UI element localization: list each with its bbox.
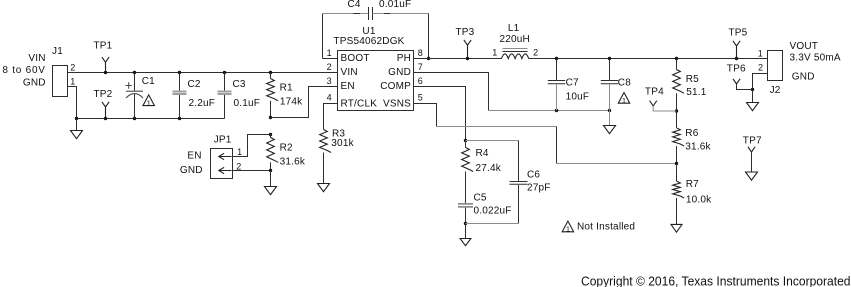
IC U1 TPS54062DGK body [338, 51, 414, 111]
wire VIN rail [68, 71, 338, 74]
label R7 [686, 179, 699, 190]
value L1 220uH [500, 34, 530, 45]
connector J1 [53, 66, 68, 97]
label C5 [474, 193, 487, 204]
svg-text:R6: R6 [685, 128, 698, 139]
svg-text:Not Installed: Not Installed [577, 221, 635, 232]
ground at TP7 [746, 172, 758, 180]
resistor R7 [673, 164, 684, 225]
svg-text:COMP: COMP [380, 81, 411, 92]
label JP1 [214, 134, 232, 145]
U1 pin name EN [341, 81, 355, 92]
svg-text:TP4: TP4 [645, 87, 664, 98]
svg-text:1: 1 [70, 76, 75, 86]
U1 pin 2 number [327, 62, 332, 72]
J2 pin 2 number [758, 62, 763, 72]
label C3 [233, 79, 246, 90]
resistor R4 [462, 141, 473, 204]
svg-text:C3: C3 [233, 79, 246, 90]
svg-text:174k: 174k [280, 97, 303, 108]
label C6 [527, 169, 540, 180]
svg-text:10.0k: 10.0k [686, 195, 712, 206]
svg-text:4: 4 [327, 93, 332, 103]
U1 pin 5 number [418, 93, 423, 103]
svg-text:TP5: TP5 [729, 28, 748, 39]
svg-text:BOOT: BOOT [341, 53, 370, 64]
label R3 [332, 129, 345, 140]
svg-text:C2: C2 [188, 79, 201, 90]
wire EN pin to divider [271, 87, 338, 118]
U1 pin name COMP [380, 81, 411, 92]
test point TP6 [733, 79, 753, 90]
svg-text:R5: R5 [686, 74, 699, 85]
label TPS54062DGK [333, 36, 404, 47]
svg-text:C5: C5 [474, 193, 487, 204]
svg-text:1: 1 [327, 48, 332, 58]
svg-text:8 to 60V: 8 to 60V [2, 65, 45, 76]
capacitor C3 [218, 73, 232, 119]
svg-text:27pF: 27pF [527, 183, 551, 194]
label L1 [508, 23, 520, 34]
label TP3 [456, 27, 475, 38]
capacitor C7 [548, 59, 565, 111]
wire GND rail [75, 117, 225, 120]
value R6 31.6k [685, 141, 711, 152]
svg-text:C6: C6 [527, 169, 540, 180]
svg-text:JP1: JP1 [214, 134, 232, 145]
svg-text:J2: J2 [770, 85, 781, 96]
label TP1 [94, 41, 113, 52]
svg-text:1: 1 [237, 147, 242, 157]
wire BOOT to C4 [323, 14, 369, 59]
U1 pin 8 number [418, 48, 423, 58]
value R4 27.4k [476, 163, 502, 174]
connector J2 [768, 51, 783, 81]
JP1 pin 2 number [236, 162, 241, 172]
label TP5 [729, 28, 748, 39]
svg-text:J1: J1 [52, 46, 63, 57]
svg-text:6: 6 [418, 76, 423, 86]
label C1 [142, 76, 155, 87]
resistor R3 [320, 130, 331, 184]
L1 pin 2 number [533, 48, 538, 58]
value C6 27pF [527, 183, 551, 194]
wire RT/CLK to R3 [324, 104, 338, 130]
node TP4 junction [675, 109, 678, 112]
svg-text:51.1: 51.1 [686, 87, 707, 98]
node R4 top junction [464, 139, 467, 142]
wire JP1 pin2 to ground node [233, 170, 271, 172]
svg-text:VSNS: VSNS [383, 98, 411, 109]
label C4 [348, 0, 361, 10]
node PH junction [427, 57, 430, 60]
label GND (output) [792, 71, 815, 82]
test point TP1 [102, 57, 109, 72]
svg-text:8: 8 [418, 48, 423, 58]
test point TP2 [102, 102, 109, 119]
svg-text:EN: EN [187, 151, 201, 162]
value R1 174k [280, 97, 303, 108]
L1 pin 1 number [492, 48, 497, 58]
JP1 pin1 arrow [219, 153, 232, 159]
wire JP1 pin1 to EN node [233, 135, 271, 157]
svg-text:EN: EN [341, 81, 355, 92]
capacitor C4 [369, 7, 373, 20]
svg-text:10uF: 10uF [566, 92, 590, 103]
U1 pin 4 number [327, 93, 332, 103]
svg-text:RT/CLK: RT/CLK [341, 98, 378, 109]
svg-text:C1: C1 [142, 76, 155, 87]
JP1 pin 1 number [237, 147, 242, 157]
U1 pin 3 number [327, 76, 332, 86]
svg-text:TP2: TP2 [94, 89, 113, 100]
U1 pin name RT/CLK [341, 98, 378, 109]
svg-text:0.022uF: 0.022uF [474, 205, 512, 216]
svg-text:0.01uF: 0.01uF [379, 0, 411, 10]
node VSNS junction [675, 162, 678, 165]
wire VSNS feedback route [414, 104, 677, 164]
value C2 2.2uF [189, 98, 216, 109]
not-installed triangle at C8 [618, 93, 629, 106]
wire PH rail [414, 57, 768, 60]
test point TP7 [748, 147, 755, 172]
capacitor C2 [173, 73, 187, 119]
not-installed triangle at C1 [143, 95, 154, 108]
ground at J2 [747, 90, 759, 111]
label TP6 [727, 63, 746, 74]
label 3.3V 50mA [790, 53, 841, 64]
ground at C8 [604, 111, 616, 134]
svg-text:C7: C7 [566, 77, 579, 88]
test point TP5 [733, 41, 740, 59]
svg-text:TP3: TP3 [456, 27, 475, 38]
svg-text:PH: PH [397, 53, 411, 64]
svg-text:2: 2 [327, 62, 332, 72]
svg-text:1: 1 [147, 99, 151, 108]
copyright note [581, 273, 851, 287]
svg-text:1: 1 [566, 225, 570, 234]
capacitor C6 [510, 182, 528, 224]
svg-text:TP6: TP6 [727, 63, 746, 74]
label C2 [188, 79, 201, 90]
svg-text:31.6k: 31.6k [280, 157, 306, 168]
wire U1 GND return rail [414, 73, 612, 113]
svg-text:3: 3 [327, 76, 332, 86]
ground at R3 [318, 184, 330, 192]
svg-text:2.2uF: 2.2uF [189, 98, 216, 109]
wire J2 pin2 to ground [753, 74, 768, 90]
value C3 0.1uF [234, 98, 261, 109]
svg-text:1: 1 [492, 48, 497, 58]
svg-text:GND: GND [388, 67, 411, 78]
svg-text:VIN: VIN [341, 67, 358, 78]
svg-text:3.3V 50mA: 3.3V 50mA [790, 53, 841, 64]
capacitor C8 [601, 59, 618, 111]
label R5 [686, 74, 699, 85]
value C5 0.022uF [474, 205, 512, 216]
ground at R7 [671, 224, 682, 232]
value C7 10uF [566, 92, 590, 103]
svg-text:1: 1 [622, 96, 626, 105]
svg-text:GND: GND [792, 71, 815, 82]
svg-text:C8: C8 [618, 77, 631, 88]
svg-text:TP7: TP7 [743, 136, 762, 147]
node EN junction [269, 116, 272, 136]
ground at J1 [71, 119, 83, 139]
U1 pin 1 number [327, 48, 332, 58]
value C4 0.01uF [379, 0, 411, 10]
node J2 ground junction [751, 88, 754, 91]
wire C6 branch bottom [466, 223, 519, 225]
svg-text:R4: R4 [476, 148, 489, 159]
wire C4 to PH [373, 14, 429, 59]
wire COMP to R4 [414, 87, 466, 141]
label EN at JP1 [187, 151, 201, 162]
label VOUT [790, 41, 819, 52]
JP1 pin2 arrow [219, 167, 232, 173]
svg-text:301k: 301k [331, 138, 354, 149]
J1 pin 1 number [70, 76, 75, 86]
connector JP1 [211, 149, 233, 179]
svg-text:27.4k: 27.4k [476, 163, 502, 174]
svg-text:GND: GND [180, 165, 203, 176]
svg-text:TP1: TP1 [94, 41, 113, 52]
svg-text:R7: R7 [686, 179, 699, 190]
svg-text:2: 2 [70, 62, 75, 72]
label J2 [770, 85, 781, 96]
label GND (input) [23, 77, 46, 88]
ground at R2 [265, 171, 277, 195]
label R6 [685, 128, 698, 139]
J1 pin 2 number [70, 62, 75, 72]
label R2 [280, 143, 293, 154]
svg-text:0.1uF: 0.1uF [234, 98, 261, 109]
svg-text:R2: R2 [280, 143, 293, 154]
node R2 bottom junction [269, 169, 272, 172]
label TP7 [743, 136, 762, 147]
label 8 to 60V [2, 65, 45, 76]
svg-text:1: 1 [758, 48, 763, 58]
value R7 10.0k [686, 195, 712, 206]
U1 pin name PH [397, 53, 411, 64]
resistor R5 [673, 59, 684, 112]
U1 pin name VIN [341, 67, 358, 78]
label C7 [566, 77, 579, 88]
J2 pin 1 number [758, 48, 763, 58]
label VIN [28, 53, 45, 64]
svg-text:7: 7 [418, 62, 423, 72]
svg-text:TPS54062DGK: TPS54062DGK [333, 36, 404, 47]
svg-text:VIN: VIN [28, 53, 45, 64]
resistor R6 [673, 111, 684, 164]
svg-text:5: 5 [418, 93, 423, 103]
value R3 301k [331, 138, 354, 149]
label GND at JP1 [180, 165, 203, 176]
label TP4 [645, 87, 664, 98]
label J1 [52, 46, 63, 57]
U1 pin 6 number [418, 76, 423, 86]
label Not Installed [577, 221, 635, 232]
svg-text:2: 2 [533, 48, 538, 58]
svg-text:L1: L1 [508, 23, 520, 34]
inductor L1 coil [502, 49, 529, 59]
test point TP3 [464, 40, 471, 59]
U1 pin name BOOT [341, 53, 370, 64]
svg-text:C4: C4 [348, 0, 361, 10]
label R4 [476, 148, 489, 159]
label R1 [280, 83, 293, 94]
capacitor C5 [458, 204, 473, 224]
label C8 [618, 77, 631, 88]
U1 pin name VSNS [383, 98, 411, 109]
value R2 31.6k [280, 157, 306, 168]
wire J1 pin1 to ground rail [68, 87, 77, 119]
resistor R2 [267, 135, 278, 171]
label U1 [362, 26, 375, 37]
wire C6 branch top [466, 141, 519, 181]
svg-text:2: 2 [758, 62, 763, 72]
U1 pin 7 number [418, 62, 423, 72]
resistor R1 [267, 73, 278, 118]
svg-text:VOUT: VOUT [790, 41, 819, 52]
U1 pin name GND [388, 67, 411, 78]
svg-text:220uH: 220uH [500, 34, 530, 45]
capacitor C1 (polarized) [126, 73, 144, 119]
svg-text:31.6k: 31.6k [685, 141, 711, 152]
ground at C5 [460, 224, 471, 246]
label TP2 [94, 89, 113, 100]
svg-text:GND: GND [23, 77, 46, 88]
node C5 bottom junction [464, 222, 467, 225]
value R5 51.1 [686, 87, 707, 98]
not-installed legend triangle [562, 221, 573, 234]
svg-text:Copyright © 2016, Texas Instru: Copyright © 2016, Texas Instruments Inco… [581, 273, 851, 287]
svg-text:R1: R1 [280, 83, 293, 94]
test point TP4 [650, 101, 677, 111]
